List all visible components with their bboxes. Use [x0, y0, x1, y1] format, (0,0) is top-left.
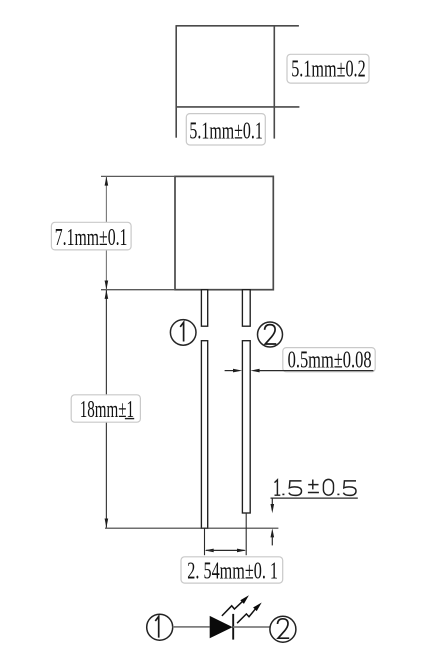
- wire anode: [173, 626, 210, 628]
- 1.5 dim lower arrow (points up to lead1 end line): [271, 528, 275, 545]
- LED schematic: anode terminal circle 1: [147, 614, 173, 640]
- dimension line 2.54mm: [205, 549, 247, 553]
- wire cathode: [233, 626, 270, 628]
- light emission arrow 2: [237, 603, 262, 624]
- extension line body bottom: [101, 289, 175, 291]
- label box 5.1mm±0.1: [186, 114, 265, 145]
- svg-text:5.1mm±0.2: 5.1mm±0.2: [291, 56, 366, 83]
- front view LED body: [175, 176, 273, 289]
- lead 1 upper stub: [201, 290, 207, 327]
- pin 1 circled label: [170, 320, 196, 346]
- pin 2 circled label: [258, 322, 283, 347]
- 1.5 dim upper arrow (points down to lead2 end): [271, 498, 275, 513]
- lead 2 upper stub: [242, 290, 250, 327]
- lead 2 lower segment: [242, 341, 250, 513]
- LED schematic: cathode terminal circle 2: [270, 616, 296, 642]
- label box 2.54mm±0.1: [181, 557, 283, 585]
- light emission arrow 1: [222, 595, 249, 616]
- svg-text:5.1mm±0.1: 5.1mm±0.1: [189, 118, 262, 145]
- extension line from lead1 down: [204, 528, 206, 555]
- extension line from lead2 down: [245, 513, 247, 555]
- dimension line 7.1mm: [105, 176, 109, 289]
- diode triangle: [210, 616, 233, 638]
- label box 0.5mm±0.08: [283, 346, 375, 373]
- label box 18mm±1: [71, 395, 140, 423]
- dimension line 18mm: [105, 290, 109, 528]
- svg-text:0.5mm±0.08: 0.5mm±0.08: [288, 346, 372, 373]
- cathode bar: [232, 614, 234, 640]
- extension line at lead1 end: [105, 527, 278, 529]
- label box 7.1mm±0.1: [51, 222, 131, 251]
- svg-text:7.1mm±0.1: 7.1mm±0.1: [55, 224, 128, 251]
- label box 5.1mm±0.2: [287, 54, 369, 83]
- dimension 0.5mm lead width arrows: [225, 369, 374, 373]
- extension line body top: [101, 175, 175, 177]
- leader underline for 1.5±0.5: [271, 497, 358, 499]
- svg-text:2. 54mm±0. 1: 2. 54mm±0. 1: [187, 558, 278, 585]
- label 1.5±0.5: [275, 479, 357, 495]
- lead 1 lower segment: [201, 341, 207, 529]
- top view square outline: [176, 25, 299, 139]
